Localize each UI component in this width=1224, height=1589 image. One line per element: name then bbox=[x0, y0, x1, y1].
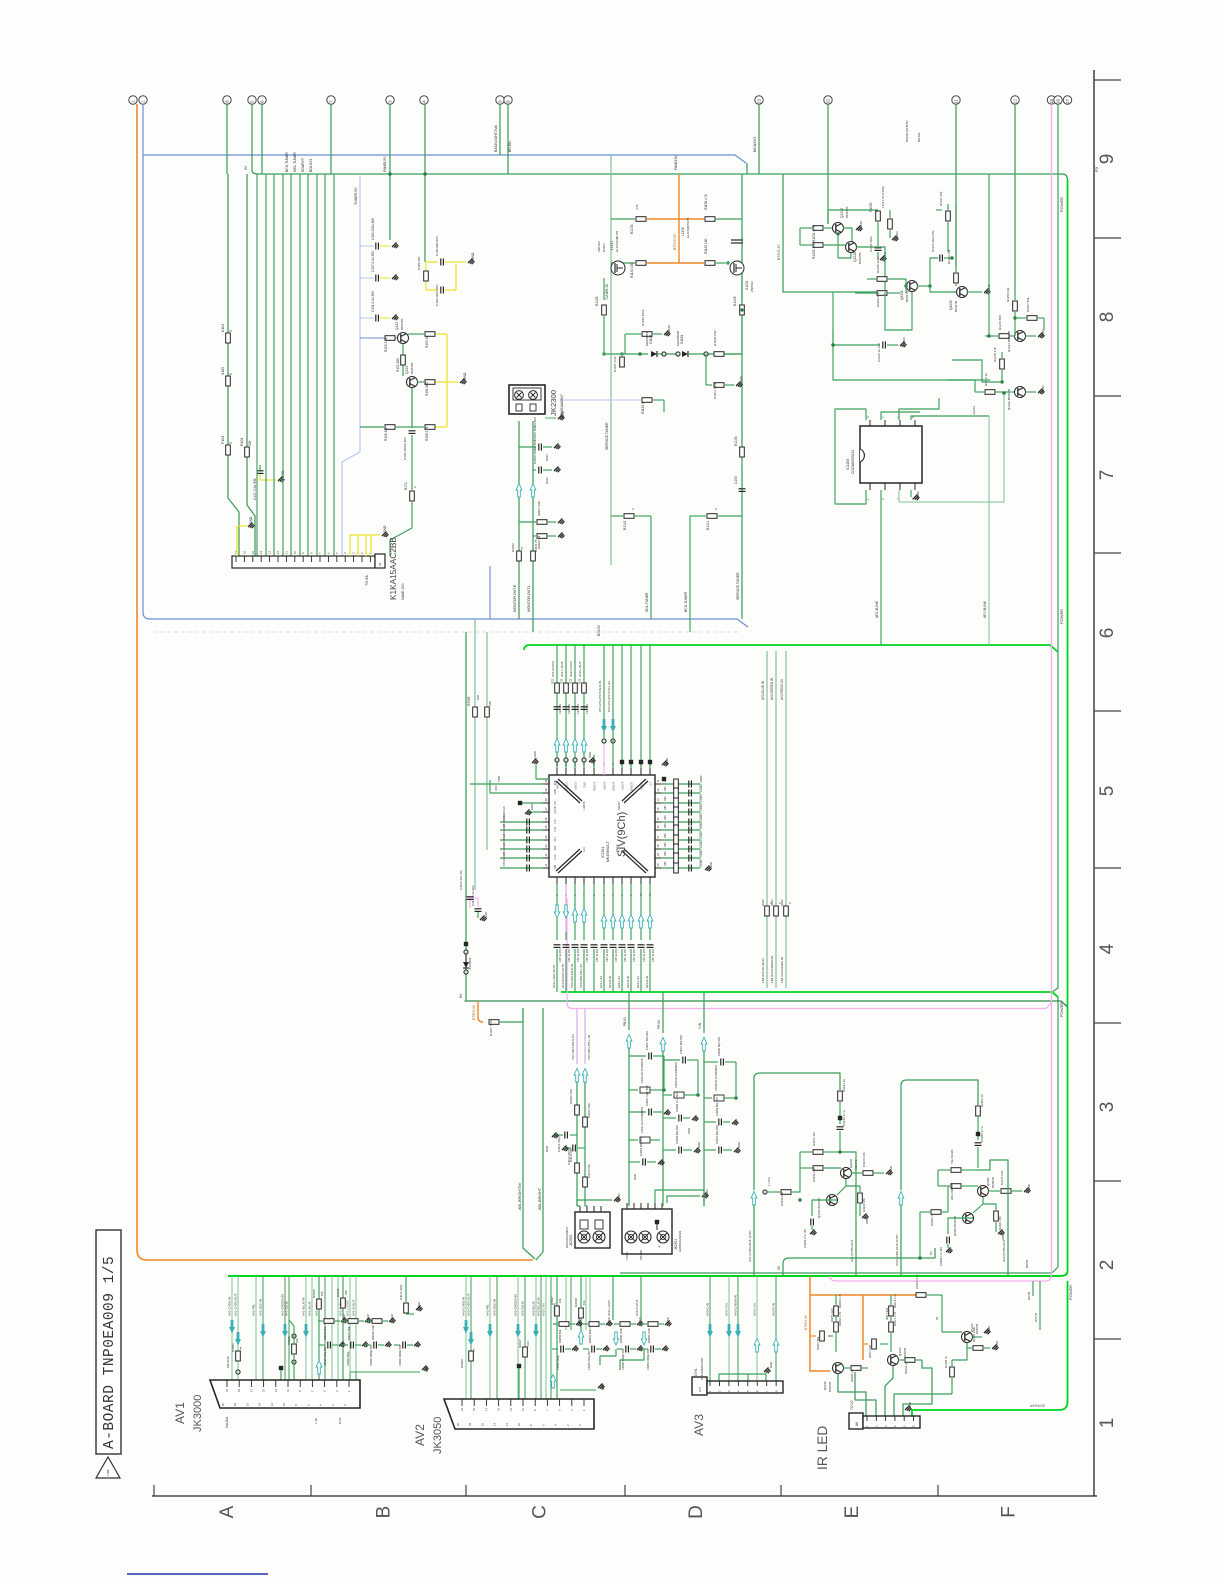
svg-text:10: 10 bbox=[293, 550, 297, 554]
resistor R3047 bbox=[523, 1347, 528, 1357]
diode D1162 MA26500B bbox=[604, 353, 648, 355]
svg-text:15: 15 bbox=[656, 817, 660, 820]
FET Q1103 2SK7002 bbox=[730, 261, 744, 275]
jack feed jogs bbox=[628, 1203, 630, 1206]
svg-text:YCV-PB1-PB-R-IN: YCV-PB1-PB-R-IN bbox=[571, 1035, 575, 1061]
IR pin ticks bbox=[865, 1416, 916, 1427]
wire AV2 CVBS OUT down bbox=[978, 1160, 1008, 1276]
svg-text:S1103: S1103 bbox=[745, 281, 749, 290]
svg-text:218: 218 bbox=[553, 846, 557, 851]
svg-text:L3024 ELJFC56075: L3024 ELJFC56075 bbox=[640, 1058, 644, 1083]
resistor R2922 on monitor R bbox=[517, 551, 522, 561]
svg-text:C121 3.3u 50V: C121 3.3u 50V bbox=[253, 477, 257, 500]
capacitor C103 bbox=[739, 488, 746, 490]
svg-text:20: 20 bbox=[456, 1422, 460, 1426]
svg-text:R1129: R1129 bbox=[733, 296, 737, 306]
AV2 arrows hollow down bbox=[613, 1332, 618, 1345]
IC1203 body bbox=[860, 426, 922, 483]
svg-text:1: 1 bbox=[1097, 1418, 1118, 1429]
svg-text:Q3216: Q3216 bbox=[898, 1347, 902, 1356]
resistor R3027A bbox=[575, 1163, 580, 1173]
resistor R3233 bbox=[800, 1151, 812, 1153]
JK2302 jack circles bbox=[578, 1231, 590, 1243]
resistor R3234 bbox=[838, 1091, 843, 1101]
svg-text:GND: GND bbox=[697, 1142, 701, 1148]
svg-text:F: F bbox=[999, 1506, 1020, 1518]
svg-text:POWER: POWER bbox=[1068, 1285, 1073, 1300]
svg-text:19: 19 bbox=[656, 853, 660, 856]
resistor R3022 bbox=[576, 1103, 578, 1105]
loop2 wires bbox=[901, 1080, 978, 1190]
svg-text:14: 14 bbox=[258, 1402, 262, 1406]
svg-text:12: 12 bbox=[656, 788, 660, 791]
svg-text:L13: L13 bbox=[582, 847, 586, 852]
svg-text:C23 16V: C23 16V bbox=[576, 704, 580, 714]
svg-text:100: 100 bbox=[476, 695, 480, 700]
svg-text:AV2-GREEN-IN: AV2-GREEN-IN bbox=[514, 1294, 518, 1316]
svg-text:A-BOARD TNP0EA009 1/5: A-BOARD TNP0EA009 1/5 bbox=[102, 1256, 118, 1449]
svg-text:VD6: VD6 bbox=[494, 785, 498, 791]
svg-text:R3214 4.7k: R3214 4.7k bbox=[893, 1311, 897, 1326]
capacitor C3051 column1 bbox=[629, 1055, 646, 1057]
svg-text:4: 4 bbox=[422, 100, 427, 103]
resistor R3211 bbox=[863, 1343, 868, 1345]
svg-text:C3363: C3363 bbox=[700, 775, 703, 783]
svg-text:SERVICE.TUNER: SERVICE.TUNER bbox=[736, 572, 740, 600]
AV3 pin ticks bbox=[708, 1381, 778, 1392]
transistor Q1232 BC847B bbox=[957, 287, 968, 298]
svg-text:A911 R6055N: A911 R6055N bbox=[950, 1183, 954, 1200]
svg-text:A81: A81 bbox=[663, 777, 667, 782]
svg-text:180: 180 bbox=[320, 1291, 324, 1296]
loop1 wires bbox=[754, 1073, 840, 1190]
svg-text:GND: GND bbox=[916, 490, 920, 498]
svg-text:R3019: R3019 bbox=[312, 1289, 316, 1298]
svg-text:GND: GND bbox=[545, 454, 549, 461]
svg-text:JK3050: JK3050 bbox=[432, 1417, 444, 1454]
capacitor C2286 bbox=[975, 1142, 982, 1144]
AV2 connector body JK3050 bbox=[444, 1399, 594, 1429]
svg-text:BOLSV: BOLSV bbox=[597, 624, 601, 636]
svg-text:AV2-BLUE: AV2-BLUE bbox=[532, 1301, 536, 1316]
resistor R1295 bbox=[867, 278, 876, 280]
svg-text:P103: P103 bbox=[221, 436, 225, 444]
capacitor C1223 bbox=[833, 330, 880, 345]
cap C3060 column3 bbox=[704, 1061, 718, 1063]
svg-text:Q1222 BC847B: Q1222 BC847B bbox=[1007, 389, 1011, 410]
svg-text:C105 1000p 50V: C105 1000p 50V bbox=[403, 436, 407, 460]
svg-text:PR-IN: PR-IN bbox=[657, 1020, 661, 1029]
gnd right of top pins bbox=[655, 769, 664, 771]
AV3 connector body bbox=[707, 1381, 783, 1393]
resistor K104 bbox=[227, 332, 229, 344]
resistor R1216 bbox=[985, 335, 998, 337]
resistor R1233 bbox=[800, 244, 812, 246]
svg-text:R.GND: R.GND bbox=[533, 751, 537, 760]
JK2302 gnd bbox=[577, 1200, 612, 1206]
transistor Q1231 BC847B bbox=[907, 281, 918, 292]
svg-text:R150 2.2k: R150 2.2k bbox=[384, 337, 388, 352]
svg-text:AY2.BLUE.IN: AY2.BLUE.IN bbox=[761, 680, 765, 700]
svg-text:C3054 1000p 50V: C3054 1000p 50V bbox=[646, 1349, 650, 1370]
svg-text:C2286 4.7u: C2286 4.7u bbox=[980, 1126, 984, 1142]
svg-text:AV1-L-OUT: AV1-L-OUT bbox=[346, 1300, 350, 1316]
IC2301 body bbox=[549, 775, 655, 877]
resistor R3581 bbox=[485, 707, 490, 717]
svg-text:AV1-R-OUT: AV1-R-OUT bbox=[352, 1300, 356, 1316]
svg-text:C1: C1 bbox=[649, 781, 653, 785]
wire drop x262 bbox=[261, 104, 263, 174]
svg-text:16: 16 bbox=[242, 550, 246, 554]
resistor R104 bbox=[245, 447, 250, 457]
svg-text:R3582: R3582 bbox=[467, 696, 471, 706]
IC2301 right nets ladder bbox=[661, 775, 703, 873]
svg-text:GND: GND bbox=[769, 1362, 773, 1368]
svg-text:GND: GND bbox=[545, 477, 549, 484]
cap C3208 gnd column2 bbox=[663, 1117, 676, 1119]
transistor Q1228 BC847B bbox=[846, 242, 857, 253]
wire dark green bus y1001 bbox=[465, 1001, 1068, 1007]
svg-text:C35 1u 16V: C35 1u 16V bbox=[633, 948, 636, 962]
svg-text:AV2.CVBS.OUT: AV2.CVBS.OUT bbox=[1002, 1240, 1006, 1262]
svg-text:R3236 0.8k: R3236 0.8k bbox=[862, 1152, 866, 1167]
wire orange cross upper horizontal bbox=[647, 218, 704, 220]
svg-text:TUNER-5V: TUNER-5V bbox=[354, 187, 358, 205]
svg-text:18: 18 bbox=[656, 844, 660, 847]
svg-text:R152 180: R152 180 bbox=[396, 358, 400, 372]
svg-text:11: 11 bbox=[286, 1389, 290, 1392]
svg-text:SDL-TUNER: SDL-TUNER bbox=[645, 592, 649, 612]
resistor R3027 on AV2 R-IN bbox=[556, 1276, 558, 1305]
svg-text:10k: 10k bbox=[582, 1300, 586, 1305]
resistor R3202 column bbox=[835, 1302, 837, 1305]
svg-text:ROU72: ROU72 bbox=[565, 781, 569, 790]
wire blue top horizontal y155 bbox=[143, 155, 746, 163]
svg-text:ELJFC(R)5U75: ELJFC(R)5U75 bbox=[615, 231, 619, 252]
svg-text:20: 20 bbox=[221, 1402, 225, 1406]
wire drop x1015 bbox=[1014, 104, 1016, 293]
svg-text:70B: 70B bbox=[553, 865, 557, 870]
AV2 testpoint square bbox=[517, 1364, 521, 1368]
resistor R156 bbox=[360, 426, 384, 428]
AV2 drop wires from bus bbox=[462, 1276, 591, 1399]
svg-text:14: 14 bbox=[259, 550, 263, 554]
svg-text:C129 220P 50V: C129 220P 50V bbox=[435, 283, 439, 306]
svg-text:189.AV2.GREEN.IN: 189.AV2.GREEN.IN bbox=[770, 956, 774, 983]
svg-text:AV2-L-IN: AV2-L-IN bbox=[542, 1304, 546, 1316]
svg-text:R3009 56k: R3009 56k bbox=[323, 1326, 327, 1340]
svg-text:GND: GND bbox=[1001, 1234, 1005, 1240]
IC2301 inside pin names left bbox=[553, 780, 557, 869]
svg-text:AV3-R-IN: AV3-R-IN bbox=[645, 976, 649, 988]
IR connector gnd pin bbox=[905, 1406, 910, 1411]
svg-text:GND: GND bbox=[739, 375, 743, 383]
svg-text:GND: GND bbox=[908, 1402, 912, 1408]
resistor R1134 bbox=[611, 262, 635, 264]
svg-text:2: 2 bbox=[141, 100, 146, 103]
FET Q1101 2SK7002 bbox=[611, 261, 625, 275]
svg-text:R3047: R3047 bbox=[518, 1339, 522, 1348]
wire left rail x487 bbox=[486, 632, 488, 850]
svg-text:JK2302: JK2302 bbox=[569, 1235, 573, 1246]
svg-text:GND: GND bbox=[417, 1302, 421, 1308]
svg-text:GND: GND bbox=[530, 804, 534, 810]
right ruler ticks bbox=[1094, 80, 1121, 1339]
svg-text:C130 56P 50V: C130 56P 50V bbox=[435, 235, 439, 256]
svg-text:2N7002: 2N7002 bbox=[750, 281, 754, 292]
resistor R3016 with gnd bbox=[405, 1276, 407, 1302]
wire green rail x1058 bbox=[1052, 104, 1058, 992]
resistor R3011 bbox=[342, 1276, 344, 1297]
orange stub BT9V at 8V rail bbox=[478, 1001, 483, 1022]
svg-text:SERVICE.TUNER: SERVICE.TUNER bbox=[605, 422, 609, 450]
svg-text:8: 8 bbox=[506, 100, 511, 103]
svg-text:CB-1160: CB-1160 bbox=[226, 1356, 230, 1368]
svg-text:A81: A81 bbox=[663, 833, 667, 838]
svg-text:R3080 100k: R3080 100k bbox=[619, 1328, 623, 1343]
svg-text:AV1.L.OUT: AV1.L.OUT bbox=[560, 661, 564, 677]
svg-text:GND: GND bbox=[865, 1218, 869, 1224]
svg-text:BC847B: BC847B bbox=[858, 253, 862, 264]
svg-text:GND: GND bbox=[666, 1317, 670, 1323]
svg-text:R153 1k: R153 1k bbox=[425, 336, 429, 348]
svg-text:C3058 1000p 50V: C3058 1000p 50V bbox=[621, 1349, 625, 1370]
svg-text:R2284 1k: R2284 1k bbox=[980, 1094, 984, 1107]
AV2 cap row bbox=[552, 1346, 669, 1371]
svg-text:AV3-Y-IN: AV3-Y-IN bbox=[725, 1304, 729, 1317]
svg-text:C3005 330p 50V: C3005 330p 50V bbox=[323, 1346, 327, 1366]
svg-text:R3023 56k: R3023 56k bbox=[587, 1164, 591, 1178]
resistor R3208 bbox=[843, 1367, 850, 1369]
svg-text:C3060 56p 50V: C3060 56p 50V bbox=[717, 1037, 721, 1056]
svg-text:K1KA15AAC2BB: K1KA15AAC2BB bbox=[389, 537, 398, 600]
svg-text:R3234 1k: R3234 1k bbox=[842, 1079, 846, 1092]
svg-text:C3230 4.7u: C3230 4.7u bbox=[842, 1110, 846, 1126]
svg-text:R2287 2: R2287 2 bbox=[930, 1215, 934, 1226]
capacitor C3230 bbox=[837, 1126, 844, 1128]
svg-text:BR.EN: BR.EN bbox=[508, 141, 512, 152]
blue reference underline bottom left bbox=[127, 1573, 268, 1575]
AV3 connector small box A*2 bbox=[692, 1377, 707, 1395]
cap C3207 gnd column3 bbox=[704, 1149, 716, 1151]
svg-text:R3011: R3011 bbox=[336, 1288, 340, 1297]
arrows up top nets bbox=[554, 739, 560, 753]
svg-text:9: 9 bbox=[1097, 154, 1118, 165]
svg-text:YCV-PB1-PO-L-IN: YCV-PB1-PO-L-IN bbox=[579, 964, 583, 988]
wire blue branch up x490 bbox=[489, 566, 491, 619]
inductor L3021 column1 bbox=[629, 1139, 638, 1141]
svg-text:R129 220: R129 220 bbox=[417, 256, 421, 270]
IC2301 corner chamfers bbox=[556, 781, 580, 803]
svg-text:AF2-9LINK: AF2-9LINK bbox=[875, 600, 879, 618]
svg-text:GND: GND bbox=[859, 220, 863, 228]
wire Q1228 emitter to R1295 bbox=[838, 234, 851, 258]
svg-text:GND: GND bbox=[249, 516, 253, 524]
capacitor C3204 column1 bbox=[629, 1111, 646, 1113]
svg-text:L1131: L1131 bbox=[610, 241, 614, 250]
svg-text:R1205 1k: R1205 1k bbox=[944, 1356, 948, 1368]
svg-text:C35 1u 16V: C35 1u 16V bbox=[586, 948, 589, 962]
svg-text:BC847B: BC847B bbox=[400, 319, 404, 330]
svg-text:C35 1u 16V: C35 1u 16V bbox=[643, 948, 646, 962]
wire pale rail x611 bbox=[610, 155, 612, 565]
svg-text:WXYB: WXYB bbox=[1034, 1313, 1038, 1322]
capacitor C121 with yellow stub bbox=[259, 465, 261, 470]
svg-text:V2B: V2B bbox=[553, 789, 557, 794]
svg-text:K2KB104A0029: K2KB104A0029 bbox=[678, 1231, 682, 1252]
arrow up loop2 bbox=[898, 1192, 904, 1206]
svg-text:C35 1u 16V: C35 1u 16V bbox=[624, 948, 627, 962]
right ladder collector rail bbox=[699, 784, 701, 868]
svg-text:C3205 56p 50V: C3205 56p 50V bbox=[675, 1125, 679, 1144]
orange drop from bus IR bbox=[810, 1276, 830, 1371]
resistor P103 bbox=[226, 445, 231, 455]
svg-text:15: 15 bbox=[497, 1407, 501, 1411]
svg-text:C3051 56p 50V: C3051 56p 50V bbox=[645, 1031, 649, 1050]
svg-text:GND: GND bbox=[737, 1142, 741, 1148]
arrow up YUV L bbox=[582, 1069, 588, 1083]
svg-text:IC1203: IC1203 bbox=[846, 459, 850, 470]
svg-text:13: 13 bbox=[757, 99, 762, 105]
svg-text:JK3000: JK3000 bbox=[192, 1395, 204, 1432]
svg-text:BT9V3.3V: BT9V3.3V bbox=[804, 1314, 808, 1330]
svg-text:AY2.RED/C.IN: AY2.RED/C.IN bbox=[780, 679, 784, 700]
svg-text:AV1-CVBS-IN: AV1-CVBS-IN bbox=[228, 1297, 232, 1316]
svg-text:217: 217 bbox=[553, 837, 557, 842]
svg-text:0: 0 bbox=[229, 373, 233, 375]
wire loop1 to bus bbox=[753, 1205, 755, 1276]
svg-text:R1203 4.7k: R1203 4.7k bbox=[915, 1274, 919, 1289]
svg-text:180: 180 bbox=[295, 1338, 299, 1343]
svg-text:5: 5 bbox=[250, 100, 255, 103]
resistor R1153 on light blue bbox=[560, 399, 641, 401]
svg-text:AY1-AY2-AY3-YUV-L-IN: AY1-AY2-AY3-YUV-L-IN bbox=[607, 681, 611, 712]
svg-text:Q3215: Q3215 bbox=[823, 1381, 827, 1390]
wire drop x508 bbox=[507, 104, 509, 174]
right ruler digits 9-1 bbox=[1097, 154, 1118, 1429]
svg-text:K3305: K3305 bbox=[287, 1336, 291, 1345]
labels bottom nets bbox=[552, 964, 649, 988]
svg-text:AV2-CVBS-OUT: AV2-CVBS-OUT bbox=[467, 1293, 471, 1316]
wire rail x742 service tuner bbox=[741, 174, 743, 619]
resistor S103 bbox=[226, 376, 231, 386]
wire drop x500 bbox=[499, 104, 501, 155]
svg-text:6: 6 bbox=[1097, 628, 1118, 639]
svg-text:R2922: R2922 bbox=[511, 543, 515, 552]
IC2301 left pin stubs bbox=[543, 779, 549, 868]
wire pink vertical x567 to bus bbox=[567, 898, 573, 1009]
resistor R3236 right bbox=[851, 1172, 862, 1174]
svg-text:YCV-PB1-PB-L-IN: YCV-PB1-PB-L-IN bbox=[587, 1035, 591, 1060]
junction dots on FET rails bbox=[602, 352, 605, 355]
svg-text:16: 16 bbox=[1056, 99, 1061, 105]
IC2301 inside pin names top bbox=[556, 781, 653, 790]
svg-text:K1KA08AC0087: K1KA08AC0087 bbox=[700, 1357, 704, 1380]
AV1 arrows bbox=[229, 1320, 309, 1346]
svg-text:ROU73: ROU73 bbox=[593, 781, 597, 790]
svg-text:A81: A81 bbox=[663, 796, 667, 801]
svg-text:C131 0.1u 50V: C131 0.1u 50V bbox=[371, 290, 375, 312]
wire orange cross lower horizontal bbox=[647, 262, 704, 264]
wire Q1229 net bbox=[799, 228, 801, 245]
svg-text:C23 16V: C23 16V bbox=[558, 704, 562, 714]
svg-text:GND: GND bbox=[902, 337, 906, 344]
wire green top bus y174 bbox=[252, 170, 1068, 180]
svg-text:GND: GND bbox=[995, 1341, 999, 1347]
svg-text:8V: 8V bbox=[459, 993, 463, 998]
wire orange main left rail bbox=[137, 104, 533, 1260]
resistor R2921 on monitor L bbox=[531, 551, 536, 561]
svg-text:C109 220u 16V: C109 220u 16V bbox=[371, 217, 375, 240]
diode D1161 MA26500B bbox=[682, 351, 688, 357]
arrow up YUV R bbox=[574, 1069, 580, 1083]
svg-text:183.AV2-BLUE.IN: 183.AV2-BLUE.IN bbox=[761, 958, 765, 983]
svg-text:C35 1u 16V: C35 1u 16V bbox=[577, 948, 580, 962]
svg-text:GND: GND bbox=[687, 1128, 691, 1134]
svg-text:KOARVT: KOARVT bbox=[301, 158, 305, 172]
wire left rail x466 bbox=[465, 632, 467, 1001]
svg-text:A81: A81 bbox=[663, 851, 667, 856]
capacitor C3330 pink link bbox=[465, 893, 467, 898]
svg-text:AV1-CVBS-OUT: AV1-CVBS-OUT bbox=[234, 1293, 238, 1316]
capacitor C105 under Q120 bbox=[411, 388, 413, 428]
svg-text:R3206 1k: R3206 1k bbox=[850, 1370, 854, 1382]
svg-text:0: 0 bbox=[714, 508, 718, 510]
svg-text:A1: A1 bbox=[378, 562, 382, 566]
svg-text:C35 1u 16V: C35 1u 16V bbox=[568, 948, 571, 962]
IC2301 top solid arrow nets bbox=[603, 645, 605, 738]
AV3 gnd jumper pins 2 5 7 bbox=[719, 1374, 766, 1386]
svg-text:BC847B: BC847B bbox=[845, 207, 849, 218]
svg-text:L1221A: L1221A bbox=[972, 406, 976, 416]
svg-text:C: C bbox=[530, 1505, 551, 1519]
svg-text:MCL.TUNER: MCL.TUNER bbox=[293, 152, 297, 172]
page border right ruler line bbox=[1093, 70, 1095, 1496]
svg-text:GND: GND bbox=[617, 1193, 621, 1200]
wire 5V riser to loop2 bbox=[783, 1248, 935, 1276]
svg-text:R3021 56k: R3021 56k bbox=[569, 1148, 573, 1162]
IC2301 left nets upper bbox=[470, 783, 543, 785]
orange vertical IR2 bbox=[862, 1295, 864, 1360]
svg-text:BCN-TUNER: BCN-TUNER bbox=[684, 591, 688, 612]
resistor R3235 bbox=[768, 1191, 780, 1193]
svg-text:L0U75: L0U75 bbox=[640, 781, 644, 789]
svg-text:C13: C13 bbox=[553, 854, 557, 859]
svg-text:R1138 4.7k: R1138 4.7k bbox=[704, 194, 708, 210]
svg-text:12: 12 bbox=[276, 550, 280, 554]
svg-text:C3053 330p 50V: C3053 330p 50V bbox=[587, 1350, 591, 1370]
cap C3051b column2 bbox=[663, 1059, 680, 1061]
PR-IN branch x663 bbox=[662, 992, 664, 1033]
svg-text:R3203 4.7k: R3203 4.7k bbox=[838, 1293, 842, 1308]
wire bright green right rail x1067.5 bbox=[1067, 180, 1069, 1271]
resistor R1129 bbox=[741, 276, 743, 300]
svg-text:AV2-CVBS-OUT-VCTP: AV2-CVBS-OUT-VCTP bbox=[895, 1234, 899, 1266]
svg-text:3: 3 bbox=[1097, 1102, 1118, 1113]
svg-text:C3204 120p 50V: C3204 120p 50V bbox=[645, 1085, 649, 1106]
svg-text:R1297 56k: R1297 56k bbox=[1026, 297, 1030, 312]
resistor R3019 bbox=[318, 1276, 320, 1298]
svg-text:AV2-R-IN: AV2-R-IN bbox=[626, 976, 630, 988]
svg-text:170k 1.5k R1229: 170k 1.5k R1229 bbox=[881, 186, 885, 208]
svg-text:9: 9 bbox=[498, 100, 503, 103]
svg-text:C35 1u 16V: C35 1u 16V bbox=[652, 948, 655, 962]
resistor R2931 bbox=[533, 535, 536, 537]
resistor R3229 emitter bbox=[846, 1186, 860, 1192]
svg-text:A: A bbox=[217, 1505, 238, 1518]
yellow wire column right of Q120 bbox=[446, 334, 448, 427]
svg-text:75: 75 bbox=[520, 546, 524, 550]
